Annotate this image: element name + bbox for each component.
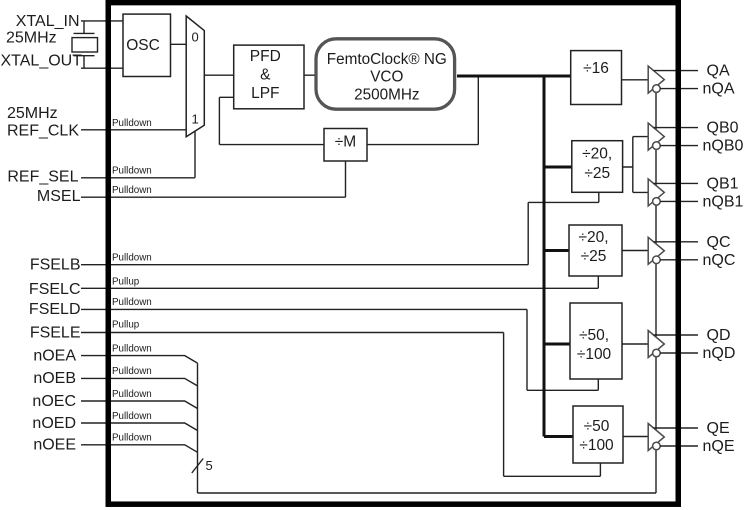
svg-text:5: 5 <box>206 458 213 473</box>
svg-text:REF_CLK: REF_CLK <box>7 122 79 139</box>
svg-text:÷20,: ÷20, <box>578 229 608 246</box>
svg-text:Pullup: Pullup <box>112 277 140 288</box>
svg-text:Pulldown: Pulldown <box>112 118 152 129</box>
svg-text:QC: QC <box>707 234 731 251</box>
svg-text:FSELE: FSELE <box>30 324 81 341</box>
svg-text:÷50: ÷50 <box>584 418 610 435</box>
svg-text:nQB1: nQB1 <box>703 193 744 210</box>
svg-text:Pulldown: Pulldown <box>112 253 152 264</box>
svg-text:Pulldown: Pulldown <box>112 297 152 308</box>
svg-text:LPF: LPF <box>251 85 279 102</box>
svg-text:PFD: PFD <box>250 48 281 65</box>
svg-text:XTAL_OUT: XTAL_OUT <box>1 53 83 70</box>
svg-text:FSELB: FSELB <box>30 257 81 274</box>
svg-text:nOEB: nOEB <box>33 370 76 387</box>
svg-text:nOED: nOED <box>32 415 76 432</box>
svg-text:1: 1 <box>192 112 199 127</box>
svg-text:FemtoClock® NG: FemtoClock® NG <box>327 51 447 68</box>
svg-text:÷100: ÷100 <box>579 437 614 454</box>
svg-text:÷25: ÷25 <box>584 165 610 182</box>
svg-text:÷50,: ÷50, <box>579 327 609 344</box>
svg-text:nQA: nQA <box>703 81 735 98</box>
svg-text:÷100: ÷100 <box>577 346 612 363</box>
svg-text:OSC: OSC <box>126 37 160 54</box>
svg-text:nQD: nQD <box>703 345 736 362</box>
svg-text:25MHz: 25MHz <box>7 105 58 122</box>
svg-text:QB0: QB0 <box>707 120 739 137</box>
svg-text:Pulldown: Pulldown <box>112 366 152 377</box>
svg-text:Pulldown: Pulldown <box>112 165 152 176</box>
svg-text:0: 0 <box>192 29 199 44</box>
svg-text:REF_SEL: REF_SEL <box>7 169 78 186</box>
svg-text:QD: QD <box>707 327 731 344</box>
svg-text:÷16: ÷16 <box>583 60 609 77</box>
svg-text:nOEC: nOEC <box>32 393 76 410</box>
svg-text:FSELC: FSELC <box>29 281 81 298</box>
svg-text:nQB0: nQB0 <box>703 138 744 155</box>
svg-text:Pulldown: Pulldown <box>112 343 152 354</box>
svg-text:2500MHz: 2500MHz <box>354 86 419 103</box>
svg-text:QB1: QB1 <box>707 175 739 192</box>
svg-text:Pullup: Pullup <box>112 320 140 331</box>
svg-text:Pulldown: Pulldown <box>112 185 152 196</box>
svg-text:MSEL: MSEL <box>37 188 81 205</box>
svg-text:QA: QA <box>707 63 730 80</box>
svg-text:nQC: nQC <box>703 252 736 269</box>
svg-text:÷25: ÷25 <box>581 248 607 265</box>
svg-text:&: & <box>260 67 271 84</box>
svg-text:Pulldown: Pulldown <box>112 389 152 400</box>
svg-text:QE: QE <box>707 420 730 437</box>
svg-text:Pulldown: Pulldown <box>112 433 152 444</box>
svg-text:Pulldown: Pulldown <box>112 411 152 422</box>
svg-text:nOEE: nOEE <box>33 437 76 454</box>
svg-text:XTAL_IN: XTAL_IN <box>16 13 80 30</box>
svg-text:FSELD: FSELD <box>29 301 81 318</box>
svg-text:÷20,: ÷20, <box>582 146 612 163</box>
svg-text:nOEA: nOEA <box>33 347 76 364</box>
svg-text:÷M: ÷M <box>335 134 356 151</box>
svg-text:VCO: VCO <box>370 68 403 85</box>
svg-text:25MHz: 25MHz <box>6 30 57 47</box>
svg-text:nQE: nQE <box>703 438 735 455</box>
